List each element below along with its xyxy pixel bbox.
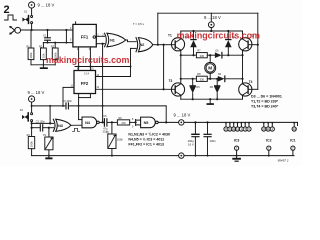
svg-text:9 ... 18 V: 9 ... 18 V [174,113,191,118]
svg-text:330: 330 [200,54,205,58]
svg-text:100k: 100k [30,141,34,148]
svg-text:T1,T2 = BD 239*: T1,T2 = BD 239* [251,99,279,103]
svg-text:T4: T4 [249,80,253,84]
svg-text:100n: 100n [210,139,217,143]
svg-text:25 V: 25 V [103,129,109,133]
svg-text:9 ... 18 V: 9 ... 18 V [28,90,45,95]
svg-text:FF1,FF2 = IC1 = 4013: FF1,FF2 = IC1 = 4013 [128,143,164,147]
svg-text:C3 100n: C3 100n [63,100,73,103]
svg-text:2: 2 [4,4,10,16]
svg-text:9 ... 18 V: 9 ... 18 V [38,3,55,8]
svg-text:FF2: FF2 [81,81,89,86]
svg-text:47k: 47k [121,121,126,125]
svg-text:makingcircuits.com: makingcircuits.com [46,55,129,65]
svg-text:14: 14 [293,127,296,131]
svg-text:16 V: 16 V [188,142,194,146]
svg-text:IC3: IC3 [234,138,240,142]
svg-text:makingcircuits.com: makingcircuits.com [177,30,260,40]
svg-text:T3: T3 [169,79,173,83]
svg-text:N4,N5 = ½ IC3 = 4011: N4,N5 = ½ IC3 = 4011 [128,138,164,142]
svg-text:N3: N3 [58,124,63,128]
svg-text:T3,T4 = BD 240*: T3,T4 = BD 240* [251,104,279,108]
svg-text:D3 ... D6 = 1N4001: D3 ... D6 = 1N4001 [251,94,282,98]
svg-text:N1,N2,N3 = ¾ IC2 = 4030: N1,N2,N3 = ¾ IC2 = 4030 [128,133,170,137]
svg-text:13: 13 [236,127,239,131]
svg-text:N5: N5 [144,121,149,125]
svg-text:IC2: IC2 [266,138,272,142]
svg-text:100k: 100k [117,138,123,142]
svg-text:N2: N2 [140,43,145,47]
svg-text:100k: 100k [29,52,33,59]
svg-text:10: 10 [262,127,265,131]
svg-text:C1: C1 [43,33,47,37]
svg-text:95457 2: 95457 2 [278,159,289,163]
svg-text:IC1: IC1 [290,138,296,142]
svg-text:C2 100n: C2 100n [36,121,46,124]
svg-text:C5: C5 [103,114,107,118]
svg-text:9 ... 18 V: 9 ... 18 V [204,15,221,20]
svg-text:T1: T1 [168,34,172,38]
svg-text:C 14: C 14 [84,73,90,75]
svg-text:T = 0,5 s: T = 0,5 s [133,22,145,26]
svg-text:M: M [208,66,212,71]
svg-text:10k: 10k [42,53,46,58]
svg-text:FF1: FF1 [81,35,89,40]
svg-text:N1: N1 [110,39,115,43]
svg-text:11: 11 [267,127,270,131]
svg-text:330: 330 [200,77,205,81]
